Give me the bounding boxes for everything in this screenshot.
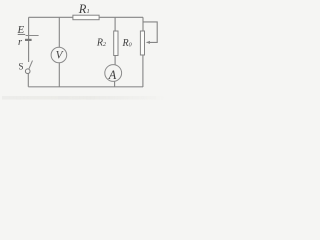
svg-text:V: V	[56, 50, 64, 62]
svg-text:S: S	[19, 62, 24, 72]
svg-text:A: A	[108, 68, 117, 82]
